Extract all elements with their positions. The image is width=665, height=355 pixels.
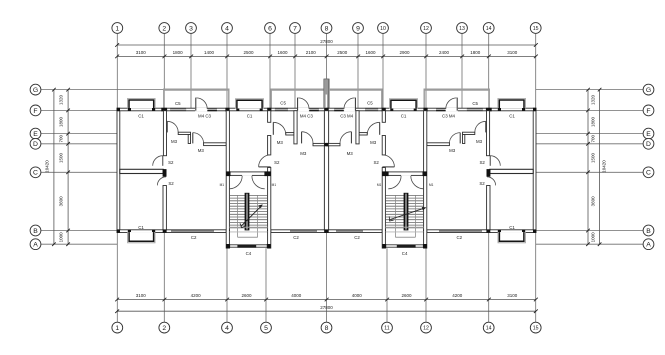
svg-text:M3: M3 [449, 148, 456, 153]
svg-text:15: 15 [533, 325, 539, 331]
svg-text:S2: S2 [479, 181, 485, 186]
svg-text:C5: C5 [367, 100, 373, 105]
svg-text:9: 9 [356, 25, 360, 32]
svg-text:27800: 27800 [320, 39, 333, 44]
svg-text:3100: 3100 [507, 50, 518, 55]
svg-text:4200: 4200 [452, 293, 463, 298]
svg-text:S2: S2 [168, 160, 174, 165]
svg-text:D: D [33, 141, 38, 148]
svg-text:1320: 1320 [59, 94, 64, 105]
svg-text:1320: 1320 [591, 94, 596, 105]
svg-text:S2: S2 [480, 160, 486, 165]
left dim texts rotated [45, 94, 64, 242]
svg-text:2500: 2500 [243, 50, 254, 55]
svg-text:A: A [33, 242, 38, 249]
svg-text:27800: 27800 [320, 305, 333, 310]
svg-text:G: G [33, 87, 38, 94]
svg-text:M3: M3 [198, 148, 205, 153]
svg-text:13: 13 [459, 26, 465, 32]
stair arrow tail tick left [240, 223, 245, 227]
left detail dim line [67, 90, 69, 245]
svg-text:8: 8 [325, 325, 329, 332]
building left half [117, 79, 329, 248]
top axis vertical lines [117, 34, 535, 108]
svg-text:C5: C5 [280, 100, 286, 105]
right axis horizontal lines [536, 90, 643, 245]
svg-text:C1: C1 [509, 225, 515, 230]
svg-text:C: C [646, 170, 651, 177]
svg-text:E: E [33, 131, 38, 138]
svg-text:S2: S2 [374, 160, 380, 165]
svg-text:M1: M1 [220, 183, 225, 187]
svg-text:C1: C1 [138, 225, 144, 230]
bottom overall dim line [117, 310, 536, 312]
svg-text:700: 700 [59, 134, 64, 142]
svg-text:1600: 1600 [365, 50, 376, 55]
svg-text:10420: 10420 [602, 160, 607, 173]
svg-text:F: F [33, 108, 37, 115]
svg-text:3100: 3100 [136, 50, 147, 55]
svg-text:M3: M3 [300, 151, 307, 156]
svg-text:M3: M3 [277, 140, 284, 145]
stair up arrow left [241, 205, 262, 226]
svg-text:C1: C1 [247, 113, 253, 118]
svg-text:C3 M4: C3 M4 [340, 113, 353, 118]
svg-text:E: E [646, 131, 651, 138]
svg-text:3600: 3600 [59, 196, 64, 207]
svg-text:M4 C3: M4 C3 [300, 113, 313, 118]
svg-text:D: D [646, 141, 651, 148]
svg-text:G: G [646, 87, 651, 94]
svg-text:C4: C4 [246, 251, 252, 256]
svg-text:1800: 1800 [173, 50, 184, 55]
stair arrow tail tick right [389, 216, 393, 221]
svg-text:15: 15 [533, 26, 539, 32]
bottom detail dim line [117, 299, 536, 301]
svg-text:1500: 1500 [59, 152, 64, 163]
svg-text:B: B [646, 228, 651, 235]
top dim ticks [115, 43, 538, 58]
svg-text:F: F [646, 108, 650, 115]
svg-text:14: 14 [486, 26, 492, 32]
left overall dim line [53, 90, 55, 245]
svg-text:2600: 2600 [401, 293, 412, 298]
svg-text:1000: 1000 [591, 232, 596, 243]
svg-text:8: 8 [325, 25, 329, 32]
svg-text:3100: 3100 [507, 293, 518, 298]
svg-text:10420: 10420 [45, 160, 50, 173]
svg-text:A: A [646, 242, 651, 249]
stair arrow head left [258, 204, 263, 208]
svg-text:1000: 1000 [59, 232, 64, 243]
svg-text:3100: 3100 [136, 293, 147, 298]
top dim texts [136, 50, 518, 55]
svg-text:M4 C3: M4 C3 [198, 114, 211, 119]
svg-text:2: 2 [162, 25, 166, 32]
svg-text:M1: M1 [272, 183, 277, 187]
svg-text:4: 4 [225, 325, 229, 332]
svg-text:1800: 1800 [470, 50, 481, 55]
svg-text:3600: 3600 [591, 196, 596, 207]
svg-text:2400: 2400 [439, 50, 450, 55]
svg-text:C2: C2 [456, 235, 462, 240]
svg-text:1800: 1800 [591, 116, 596, 127]
svg-text:6: 6 [268, 25, 272, 32]
svg-text:M3: M3 [347, 151, 354, 156]
building right half mirrored [324, 79, 536, 248]
svg-text:1600: 1600 [277, 50, 288, 55]
svg-text:4000: 4000 [352, 293, 363, 298]
bottom dim ticks [115, 298, 538, 313]
svg-text:M3: M3 [476, 139, 483, 144]
left axis horizontal lines [41, 90, 163, 245]
svg-text:7: 7 [293, 25, 297, 32]
right dim texts rotated [591, 94, 607, 242]
svg-text:B: B [33, 228, 38, 235]
svg-text:S2: S2 [168, 181, 174, 186]
bottom axis vertical lines [117, 233, 535, 323]
svg-text:M1: M1 [429, 183, 434, 187]
svg-text:3: 3 [189, 25, 193, 32]
stair up arrow right [390, 208, 425, 220]
stair arrow head right [422, 207, 427, 210]
svg-text:M3: M3 [171, 139, 178, 144]
bottom dim texts [136, 293, 518, 298]
svg-text:1: 1 [115, 325, 119, 332]
svg-text:4000: 4000 [291, 293, 302, 298]
svg-text:C5: C5 [175, 101, 181, 106]
svg-text:700: 700 [591, 134, 596, 142]
svg-text:C2: C2 [354, 235, 360, 240]
svg-text:10: 10 [380, 26, 386, 32]
svg-text:2100: 2100 [306, 50, 317, 55]
svg-text:2900: 2900 [399, 50, 410, 55]
svg-text:2600: 2600 [241, 293, 252, 298]
svg-text:14: 14 [486, 325, 492, 331]
svg-text:M1: M1 [377, 183, 382, 187]
left dim ticks [52, 88, 70, 246]
svg-text:M3: M3 [370, 140, 377, 145]
svg-text:C3 M4: C3 M4 [442, 114, 455, 119]
svg-text:1400: 1400 [204, 50, 215, 55]
svg-text:C2: C2 [293, 235, 299, 240]
svg-text:C1: C1 [138, 114, 144, 119]
svg-text:S2: S2 [274, 160, 280, 165]
svg-text:4200: 4200 [191, 293, 202, 298]
right detail dim line [587, 90, 589, 245]
right dim ticks [586, 88, 601, 246]
svg-text:2: 2 [162, 325, 166, 332]
svg-text:1: 1 [115, 25, 119, 32]
svg-text:C4: C4 [402, 251, 408, 256]
svg-text:1800: 1800 [59, 116, 64, 127]
svg-text:11: 11 [384, 325, 389, 331]
top overall dim line [117, 44, 536, 46]
svg-text:C1: C1 [509, 114, 515, 119]
svg-text:12: 12 [423, 325, 429, 331]
svg-text:C: C [33, 170, 38, 177]
svg-text:C1: C1 [401, 113, 407, 118]
svg-text:2500: 2500 [337, 50, 348, 55]
right overall dim line [599, 90, 601, 245]
svg-text:5: 5 [264, 325, 268, 332]
top detail dim line [117, 55, 536, 57]
svg-text:1500: 1500 [591, 152, 596, 163]
svg-text:C5: C5 [472, 101, 478, 106]
svg-text:C2: C2 [191, 235, 197, 240]
svg-text:4: 4 [225, 25, 229, 32]
svg-text:12: 12 [423, 26, 429, 32]
